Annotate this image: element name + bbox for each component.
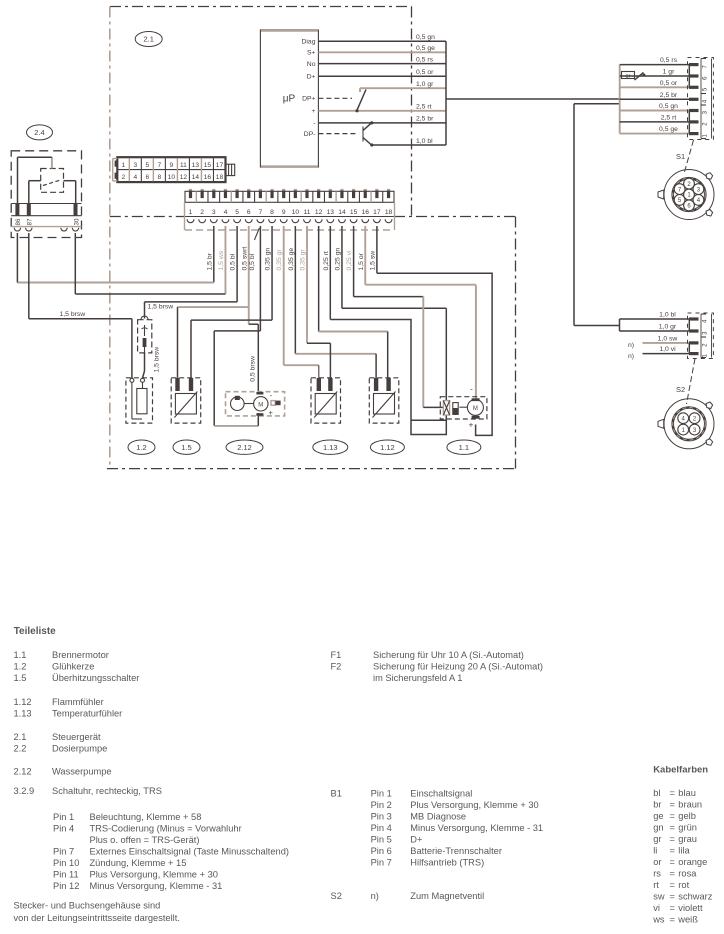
svg-text:grau: grau <box>678 834 697 844</box>
svg-text:orange: orange <box>678 857 707 867</box>
svg-text:Überhitzungsschalter: Überhitzungsschalter <box>52 673 139 683</box>
svg-text:sw: sw <box>653 892 665 902</box>
svg-text:Pin 2: Pin 2 <box>371 800 392 810</box>
svg-text:=: = <box>670 915 675 925</box>
svg-text:0,5 brsw: 0,5 brsw <box>249 356 256 382</box>
svg-text:3.2.9: 3.2.9 <box>14 786 35 796</box>
svg-text:-: - <box>313 120 315 127</box>
svg-text:Pin 10: Pin 10 <box>53 858 79 868</box>
svg-text:0,35 gn: 0,35 gn <box>265 248 272 271</box>
svg-text:Sicherung für Uhr 10 A (Si.-Au: Sicherung für Uhr 10 A (Si.-Automat) <box>373 650 524 660</box>
svg-text:Pin 6: Pin 6 <box>371 846 392 856</box>
svg-text:1.5: 1.5 <box>181 443 191 452</box>
svg-text:0,5 gn: 0,5 gn <box>416 34 435 41</box>
svg-text:Pin 1: Pin 1 <box>371 789 392 799</box>
svg-text:30: 30 <box>73 218 80 225</box>
svg-text:1,5 ws: 1,5 ws <box>218 250 225 270</box>
svg-text:14: 14 <box>338 209 346 216</box>
svg-text:Teileliste: Teileliste <box>14 626 56 637</box>
svg-text:=: = <box>670 857 675 867</box>
svg-text:+: + <box>469 420 474 429</box>
svg-text:von der Leitungseintrittsseite: von der Leitungseintrittsseite dargestel… <box>14 913 180 923</box>
svg-text:0,35 gr: 0,35 gr <box>276 249 283 271</box>
svg-text:3: 3 <box>212 209 216 216</box>
svg-text:0,5 ge: 0,5 ge <box>659 126 678 133</box>
svg-text:=: = <box>670 800 675 810</box>
svg-text:Zum Magnetventil: Zum Magnetventil <box>410 891 484 901</box>
svg-text:Steuergerät: Steuergerät <box>52 732 101 742</box>
svg-text:B1: B1 <box>331 789 342 799</box>
svg-text:10: 10 <box>168 174 176 181</box>
svg-text:0,5 swrt: 0,5 swrt <box>241 247 248 271</box>
svg-text:blau: blau <box>678 788 696 798</box>
svg-text:2,5 rt: 2,5 rt <box>416 104 432 111</box>
svg-text:Einschaltsignal: Einschaltsignal <box>410 789 472 799</box>
svg-text:=: = <box>670 880 675 890</box>
svg-text:2.1: 2.1 <box>143 35 153 44</box>
svg-text:n): n) <box>371 891 379 901</box>
svg-text:rot: rot <box>678 880 689 890</box>
svg-text:0,25 gn: 0,25 gn <box>334 248 341 271</box>
svg-text:11: 11 <box>304 209 311 216</box>
svg-text:1.1: 1.1 <box>14 650 27 660</box>
svg-text:MB Diagnose: MB Diagnose <box>410 812 466 822</box>
svg-text:18: 18 <box>216 174 224 181</box>
svg-text:=: = <box>670 834 675 844</box>
svg-text:Kabelfarben: Kabelfarben <box>653 765 708 776</box>
svg-text:Temperaturfühler: Temperaturfühler <box>52 709 122 719</box>
svg-text:1,0 bl: 1,0 bl <box>659 312 676 319</box>
svg-text:6: 6 <box>146 174 150 181</box>
svg-text:1: 1 <box>121 162 125 169</box>
svg-text:0,5 bl: 0,5 bl <box>230 253 237 270</box>
svg-text:im Sicherungsfeld A 1: im Sicherungsfeld A 1 <box>373 673 462 683</box>
svg-text:18: 18 <box>385 209 393 216</box>
svg-text:1,5 brsw: 1,5 brsw <box>60 311 86 318</box>
svg-text:Pin 7: Pin 7 <box>371 858 392 868</box>
svg-text:2,5 rt: 2,5 rt <box>661 114 677 121</box>
svg-text:Minus Versorgung, Klemme - 31: Minus Versorgung, Klemme - 31 <box>90 881 223 891</box>
svg-text:TRS-Codierung (Minus = Vorwahl: TRS-Codierung (Minus = Vorwahluhr <box>90 824 242 834</box>
svg-text:1,5 sw: 1,5 sw <box>369 251 376 271</box>
svg-text:0,35 gr: 0,35 gr <box>300 249 307 271</box>
svg-text:0,5 gn: 0,5 gn <box>659 103 678 110</box>
svg-text:2.2: 2.2 <box>14 744 27 754</box>
svg-text:0,5 bl: 0,5 bl <box>249 253 256 270</box>
svg-text:Wasserpumpe: Wasserpumpe <box>52 767 112 777</box>
svg-text:br: br <box>653 800 661 810</box>
svg-text:weiß: weiß <box>677 915 698 925</box>
svg-text:Minus Versorgung, Klemme - 31: Minus Versorgung, Klemme - 31 <box>410 823 543 833</box>
svg-text:13: 13 <box>192 162 200 169</box>
svg-text:schwarz: schwarz <box>678 892 712 902</box>
svg-text:2.12: 2.12 <box>14 767 32 777</box>
svg-text:3: 3 <box>133 162 137 169</box>
svg-text:2,5 br: 2,5 br <box>660 92 678 99</box>
svg-text:1.2: 1.2 <box>136 443 146 452</box>
svg-text:13: 13 <box>327 209 335 216</box>
svg-text:0,25 vi: 0,25 vi <box>346 250 353 271</box>
svg-text:Beleuchtung, Klemme + 58: Beleuchtung, Klemme + 58 <box>90 812 202 822</box>
svg-text:17: 17 <box>216 162 224 169</box>
svg-text:1.13: 1.13 <box>323 443 338 452</box>
svg-text:F1: F1 <box>331 650 342 660</box>
svg-text:1.12: 1.12 <box>380 443 395 452</box>
svg-text:Flammfühler: Flammfühler <box>52 697 104 707</box>
svg-text:D+: D+ <box>307 74 316 81</box>
svg-text:S2: S2 <box>676 385 685 394</box>
svg-text:=: = <box>670 788 675 798</box>
svg-text:7: 7 <box>158 162 162 169</box>
svg-text:Batterie-Trennschalter: Batterie-Trennschalter <box>410 846 502 856</box>
svg-text:Pin 5: Pin 5 <box>371 835 392 845</box>
svg-text:Pin 11: Pin 11 <box>53 870 79 880</box>
svg-text:Zündung, Klemme + 15: Zündung, Klemme + 15 <box>90 858 187 868</box>
svg-text:Pin 12: Pin 12 <box>53 881 79 891</box>
svg-text:Diag: Diag <box>302 39 316 46</box>
svg-text:0,5 rs: 0,5 rs <box>660 57 678 64</box>
svg-text:or: or <box>653 857 661 867</box>
svg-text:9: 9 <box>170 162 174 169</box>
svg-text:Dosierpumpe: Dosierpumpe <box>52 744 107 754</box>
svg-text:1,5 brsw: 1,5 brsw <box>148 304 174 311</box>
svg-text:Externes Einschaltsignal (Tast: Externes Einschaltsignal (Taste Minussch… <box>90 847 289 857</box>
svg-text:grün: grün <box>678 823 697 833</box>
svg-text:1,5 brsw: 1,5 brsw <box>154 347 161 373</box>
svg-text:6: 6 <box>247 209 251 216</box>
svg-text:5: 5 <box>146 162 150 169</box>
svg-text:n): n) <box>628 342 634 349</box>
svg-text:D+: D+ <box>410 835 422 845</box>
svg-text:1,5 br: 1,5 br <box>206 252 213 270</box>
svg-text:1.5: 1.5 <box>14 673 27 683</box>
svg-text:violett: violett <box>678 903 703 913</box>
svg-text:0,5 or: 0,5 or <box>416 69 434 76</box>
svg-text:1,5 or: 1,5 or <box>358 252 365 270</box>
svg-text:Pin 1: Pin 1 <box>53 812 74 822</box>
svg-text:2.4: 2.4 <box>34 128 44 137</box>
svg-text:Sicherung für Heizung 20 A (Si: Sicherung für Heizung 20 A (Si.-Automat) <box>373 662 543 672</box>
svg-text:ws: ws <box>652 915 665 925</box>
svg-text:=: = <box>670 892 675 902</box>
svg-text:gn: gn <box>653 823 663 833</box>
svg-text:S+: S+ <box>307 50 316 57</box>
svg-text:1,0 bl: 1,0 bl <box>416 138 433 145</box>
svg-text:87: 87 <box>27 218 34 225</box>
svg-text:15: 15 <box>204 162 212 169</box>
svg-text:2: 2 <box>121 174 125 181</box>
svg-text:14: 14 <box>192 174 200 181</box>
svg-text:1.13: 1.13 <box>14 709 32 719</box>
svg-text:10: 10 <box>292 209 300 216</box>
svg-text:lila: lila <box>678 846 690 856</box>
svg-text:2.1: 2.1 <box>14 732 27 742</box>
svg-text:4: 4 <box>133 174 137 181</box>
svg-text:gr: gr <box>626 73 631 79</box>
svg-text:rosa: rosa <box>678 869 697 879</box>
svg-text:μP: μP <box>283 94 296 105</box>
svg-text:vi: vi <box>653 903 660 913</box>
svg-text:1,0 gr: 1,0 gr <box>416 81 434 88</box>
svg-text:Plus Versorgung, Klemme + 30: Plus Versorgung, Klemme + 30 <box>90 870 218 880</box>
svg-text:S2: S2 <box>331 891 342 901</box>
svg-text:0,5 ge: 0,5 ge <box>416 45 435 52</box>
svg-text:Hilfsantrieb (TRS): Hilfsantrieb (TRS) <box>410 858 484 868</box>
svg-text:F2: F2 <box>331 662 342 672</box>
svg-text:8: 8 <box>270 209 274 216</box>
svg-text:1.12: 1.12 <box>14 697 32 707</box>
svg-text:7: 7 <box>259 209 263 216</box>
svg-text:0,5 or: 0,5 or <box>660 80 678 87</box>
svg-text:1,0 vi: 1,0 vi <box>659 346 676 353</box>
svg-text:86: 86 <box>15 218 22 225</box>
svg-text:=: = <box>670 903 675 913</box>
svg-text:16: 16 <box>362 209 370 216</box>
svg-text:rt: rt <box>653 880 659 890</box>
svg-text:0,35 ge: 0,35 ge <box>288 248 295 271</box>
svg-text:S1: S1 <box>676 152 685 161</box>
svg-text:9: 9 <box>282 209 286 216</box>
svg-text:=: = <box>670 869 675 879</box>
svg-text:1,0 sw: 1,0 sw <box>658 335 678 342</box>
svg-text:Glühkerze: Glühkerze <box>52 662 94 672</box>
svg-text:Pin 3: Pin 3 <box>371 812 392 822</box>
svg-text:1.1: 1.1 <box>459 443 469 452</box>
svg-text:No: No <box>307 61 316 68</box>
svg-text:5: 5 <box>235 209 239 216</box>
svg-text:bl: bl <box>653 788 660 798</box>
svg-text:n): n) <box>628 353 634 360</box>
svg-text:16: 16 <box>204 174 212 181</box>
svg-text:2.12: 2.12 <box>237 443 252 452</box>
svg-text:Brennermotor: Brennermotor <box>52 650 109 660</box>
svg-text:-: - <box>470 385 473 394</box>
svg-text:1.2: 1.2 <box>14 662 27 672</box>
svg-text:11: 11 <box>180 162 187 169</box>
svg-text:0,5 rs: 0,5 rs <box>416 56 434 63</box>
svg-text:Schaltuhr, rechteckig, TRS: Schaltuhr, rechteckig, TRS <box>52 786 162 796</box>
svg-text:17: 17 <box>373 209 381 216</box>
svg-text:12: 12 <box>315 209 323 216</box>
svg-text:2,5 br: 2,5 br <box>416 116 434 123</box>
svg-text:Pin 4: Pin 4 <box>53 824 74 834</box>
svg-text:braun: braun <box>678 800 702 810</box>
svg-text:li: li <box>653 846 657 856</box>
svg-text:12: 12 <box>180 174 188 181</box>
svg-text:Plus Versorgung, Klemme + 30: Plus Versorgung, Klemme + 30 <box>410 800 538 810</box>
svg-text:1,0 gr: 1,0 gr <box>659 324 677 331</box>
svg-text:M: M <box>258 402 263 408</box>
svg-text:M: M <box>473 406 478 412</box>
svg-text:=: = <box>670 811 675 821</box>
svg-text:Plus o. offen = TRS-Gerät): Plus o. offen = TRS-Gerät) <box>90 835 200 845</box>
svg-text:2: 2 <box>200 209 204 216</box>
svg-text:1: 1 <box>189 209 193 216</box>
svg-text:=: = <box>670 846 675 856</box>
svg-text:Pin 7: Pin 7 <box>53 847 74 857</box>
svg-text:gelb: gelb <box>678 811 696 821</box>
svg-text:0,25 rt: 0,25 rt <box>323 251 330 270</box>
svg-text:gr: gr <box>653 834 661 844</box>
svg-text:Pin 4: Pin 4 <box>371 823 392 833</box>
svg-text:=: = <box>670 823 675 833</box>
svg-text:1 gr: 1 gr <box>663 69 675 76</box>
svg-text:rs: rs <box>653 869 661 879</box>
svg-text:DP-: DP- <box>304 131 316 138</box>
svg-text:4: 4 <box>224 209 228 216</box>
svg-text:ge: ge <box>653 811 663 821</box>
svg-text:+: + <box>312 108 316 115</box>
svg-text:8: 8 <box>158 174 162 181</box>
svg-text:15: 15 <box>350 209 358 216</box>
svg-text:DP+: DP+ <box>302 96 315 103</box>
svg-text:+: + <box>269 408 274 417</box>
svg-text:Stecker- und Buchsengehäuse si: Stecker- und Buchsengehäuse sind <box>14 901 161 911</box>
